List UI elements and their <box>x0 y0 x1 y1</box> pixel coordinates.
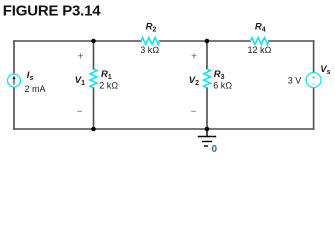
svg-text:+: + <box>78 51 84 62</box>
svg-text:R1: R1 <box>101 69 112 81</box>
resistor R3 zigzag <box>204 69 211 88</box>
svg-text:Vs: Vs <box>320 64 330 76</box>
wire branch R3 lower <box>206 88 208 129</box>
svg-text:V2: V2 <box>189 75 199 87</box>
svg-text:6 kΩ: 6 kΩ <box>213 81 232 91</box>
svg-text:R3: R3 <box>214 69 225 81</box>
wire branch R1 upper <box>93 41 95 69</box>
svg-text:+: + <box>312 75 316 81</box>
wire right rail lower (below voltage source) <box>313 88 315 129</box>
wire bottom rail <box>14 128 314 130</box>
wire right rail upper (above voltage source) <box>313 41 315 72</box>
svg-text:2 kΩ: 2 kΩ <box>99 81 118 91</box>
svg-text:3 kΩ: 3 kΩ <box>140 45 159 55</box>
ground stub <box>206 129 208 137</box>
resistor R4 zigzag <box>250 38 268 45</box>
wire branch R3 upper <box>206 41 208 69</box>
node dot bottom of R1 branch <box>91 127 96 132</box>
svg-text:V1: V1 <box>75 75 85 87</box>
voltage source 3V circle <box>306 73 321 88</box>
svg-text:2 mA: 2 mA <box>25 84 46 94</box>
ground bar medium <box>202 141 212 143</box>
node dot top of R1 branch <box>91 39 96 44</box>
node dot top of R3 branch <box>205 39 210 44</box>
svg-text:R4: R4 <box>255 22 266 34</box>
svg-text:FIGURE P3.14: FIGURE P3.14 <box>3 2 101 19</box>
svg-text:−: − <box>312 82 316 88</box>
wire left rail upper (above current source) <box>13 41 15 74</box>
wire top-left segment (top rail left of R2) <box>14 40 141 42</box>
svg-text:Is: Is <box>27 70 34 82</box>
node dot bottom of R3 branch (ground node) <box>205 127 210 132</box>
wire branch R1 lower <box>93 88 95 129</box>
resistor R1 zigzag <box>90 69 97 88</box>
resistor R2 zigzag <box>141 38 160 45</box>
svg-text:0: 0 <box>212 144 218 155</box>
current source arrow <box>13 78 15 85</box>
ground bar long <box>198 136 216 138</box>
wire top-middle segment (between R2 and R4) <box>160 40 251 42</box>
wire top-right segment (right of R4) <box>269 40 314 42</box>
wire left rail lower (below current source) <box>13 87 15 129</box>
ground bar short <box>204 145 208 147</box>
svg-text:−: − <box>191 106 197 117</box>
current source Is circle <box>8 74 21 87</box>
svg-text:3 V: 3 V <box>288 76 302 86</box>
svg-text:R2: R2 <box>146 22 157 34</box>
svg-text:−: − <box>77 106 83 117</box>
svg-text:12 kΩ: 12 kΩ <box>248 45 272 55</box>
svg-text:+: + <box>191 51 197 62</box>
